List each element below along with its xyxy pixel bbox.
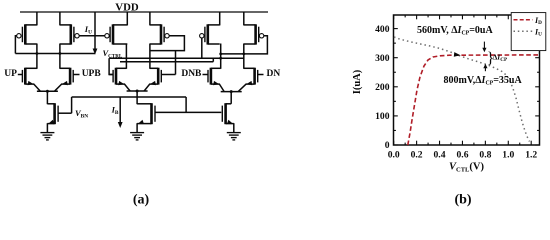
svg-text:I(uA): I(uA)	[352, 69, 363, 94]
svg-text:UP: UP	[4, 69, 17, 79]
svg-text:100: 100	[375, 111, 390, 122]
svg-text:1.2: 1.2	[525, 150, 537, 161]
svg-text:800mV,ΔICP=35uA: 800mV,ΔICP=35uA	[444, 75, 523, 86]
svg-text:400: 400	[375, 24, 390, 35]
svg-text:VDD: VDD	[115, 2, 139, 14]
svg-text:(b): (b)	[454, 193, 471, 208]
svg-text:1.0: 1.0	[502, 150, 514, 161]
svg-text:DNB: DNB	[181, 69, 202, 79]
svg-text:0: 0	[385, 140, 390, 151]
svg-text:UPB: UPB	[82, 69, 102, 79]
svg-text:0.6: 0.6	[457, 150, 469, 161]
svg-text:0.4: 0.4	[434, 150, 446, 161]
svg-text:(a): (a)	[133, 193, 150, 208]
svg-text:DN: DN	[267, 69, 281, 79]
svg-text:560mV, ΔICP=0uA: 560mV, ΔICP=0uA	[417, 25, 493, 36]
svg-text:0.8: 0.8	[479, 150, 491, 161]
svg-text:0.0: 0.0	[388, 150, 400, 161]
svg-text:0.2: 0.2	[411, 150, 423, 161]
svg-text:300: 300	[375, 53, 390, 64]
svg-text:200: 200	[375, 82, 390, 93]
